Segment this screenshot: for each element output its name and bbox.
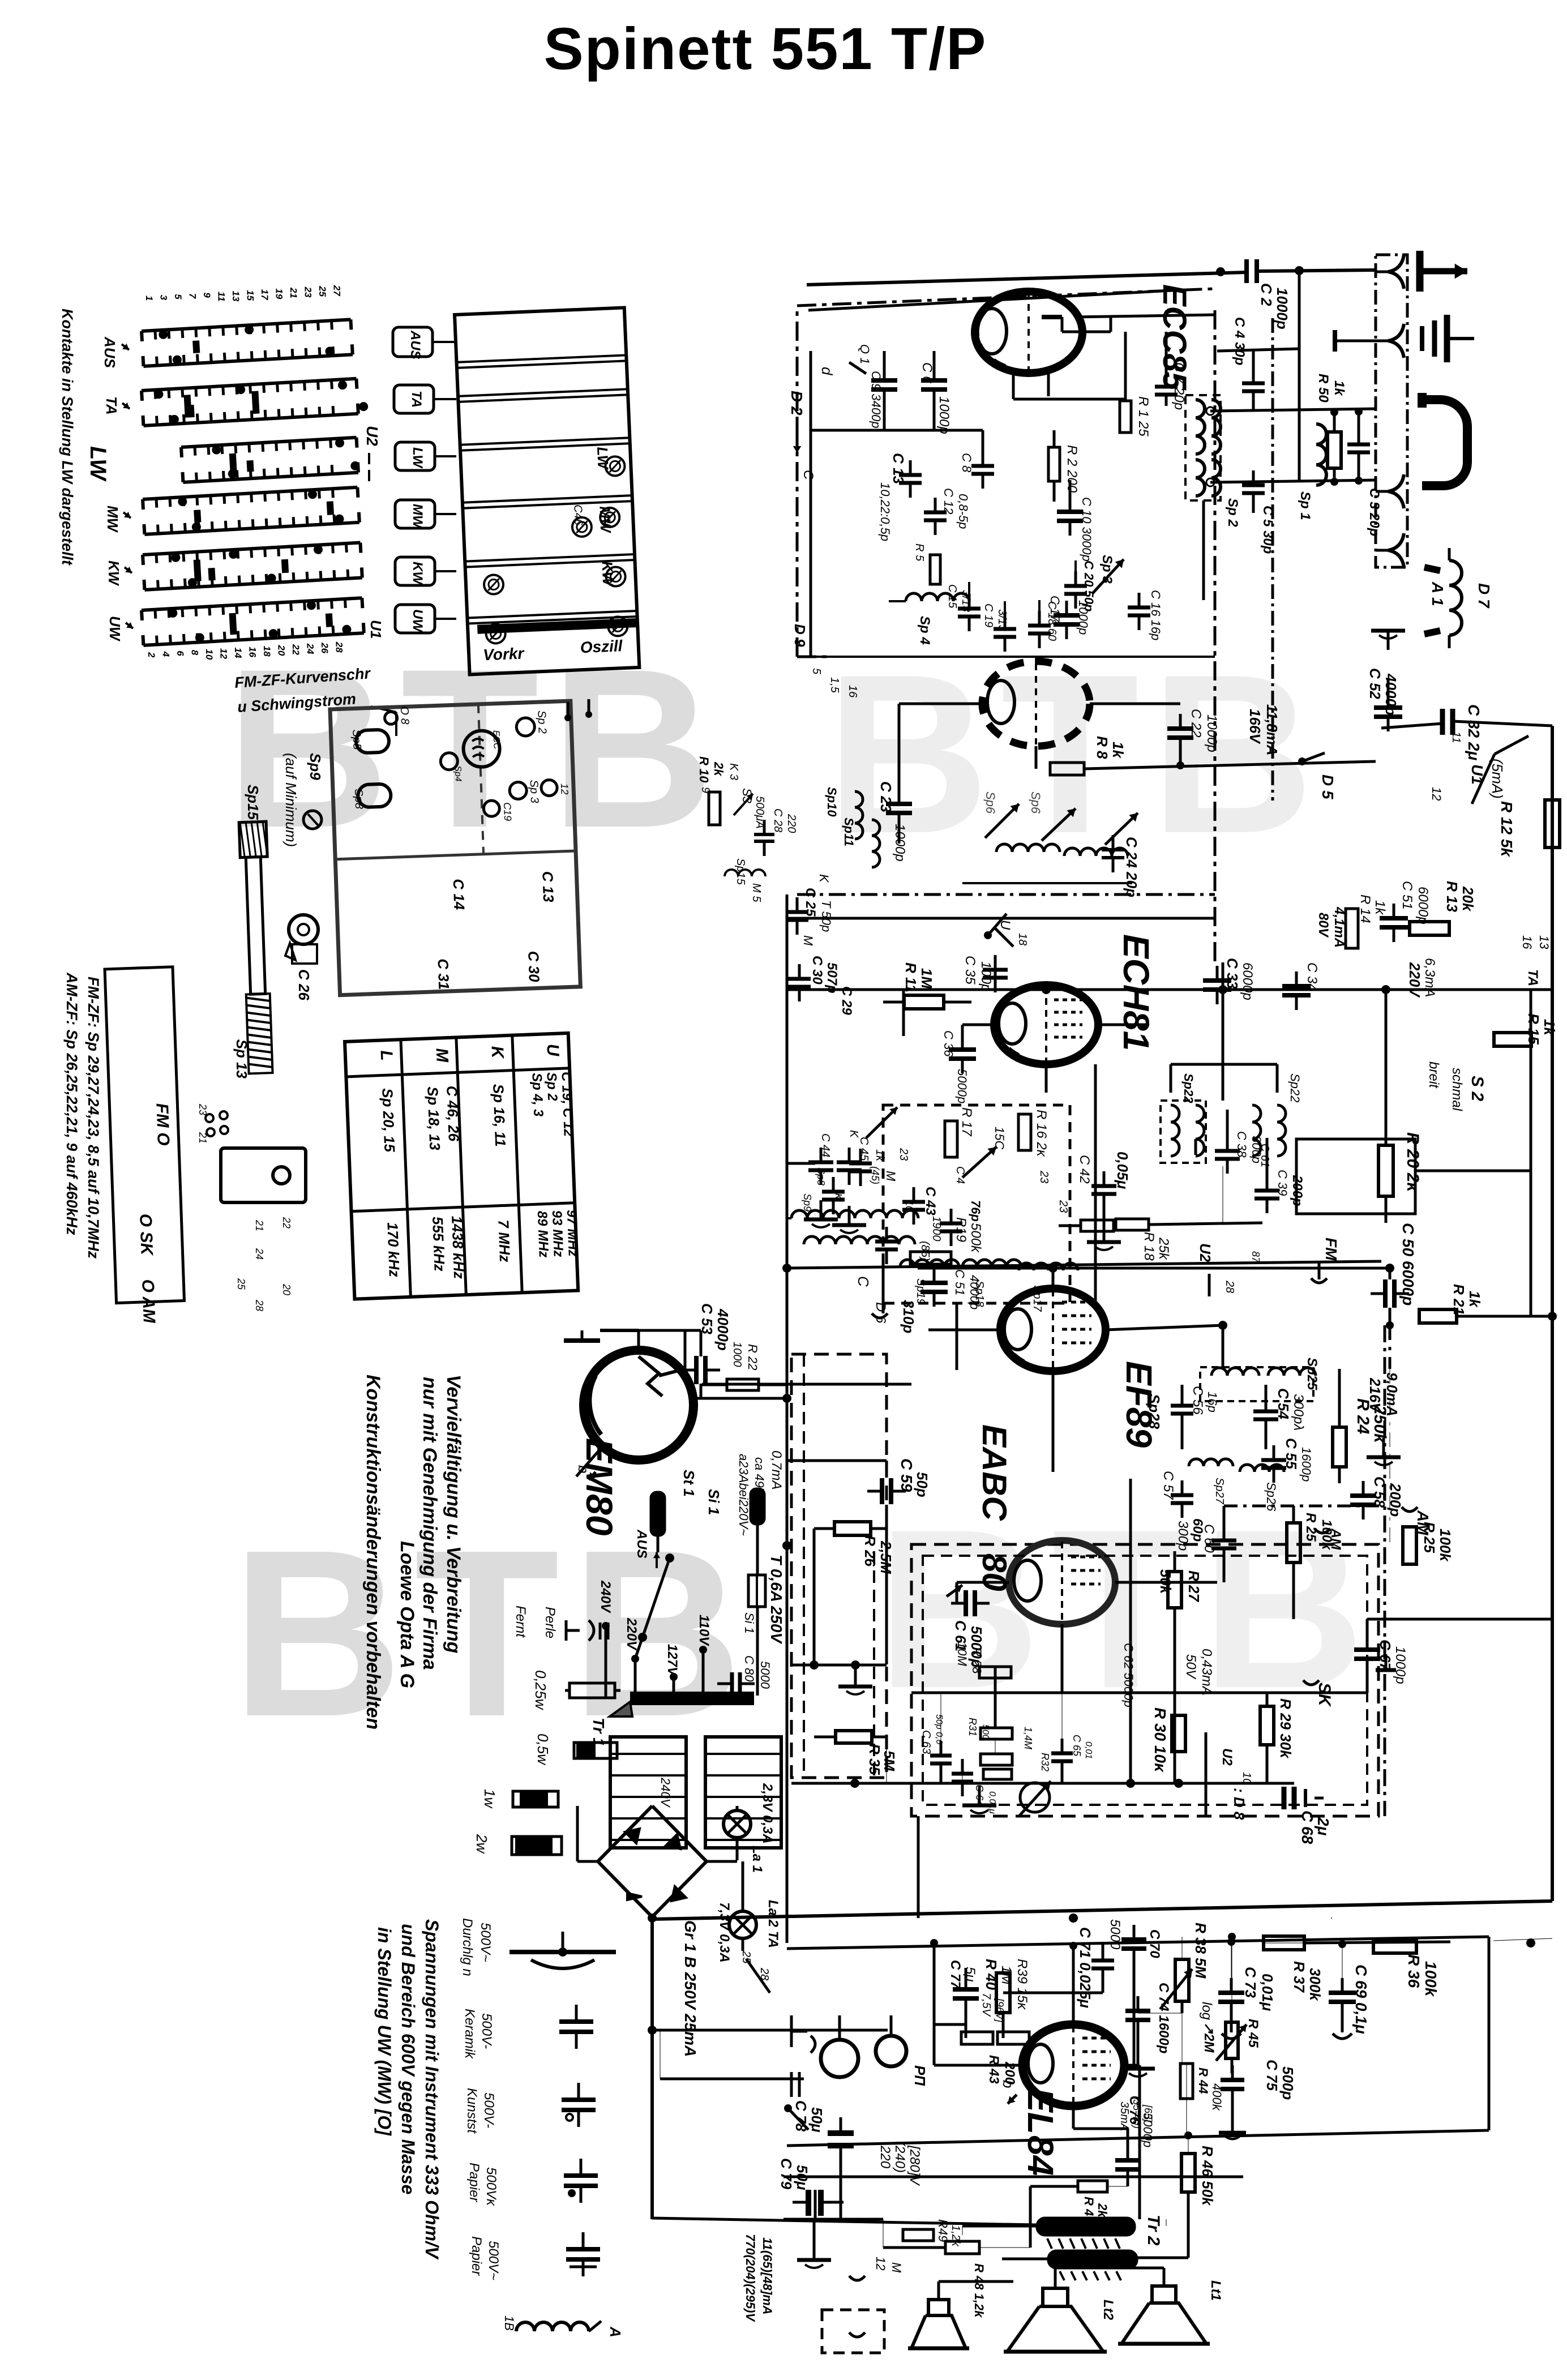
- svg-text:C 22: C 22: [1188, 709, 1204, 738]
- IF block rect: [1296, 1139, 1415, 1214]
- band connector tab MW: [395, 500, 435, 528]
- svg-text:FM O: FM O: [152, 1103, 173, 1146]
- capacitor C34: [1282, 984, 1311, 988]
- svg-text:300k: 300k: [1307, 1968, 1324, 2001]
- speaker wires: [1054, 2268, 1057, 2288]
- capacitor C6 1000p: [921, 378, 947, 383]
- svg-text:R 28: R 28: [970, 1647, 984, 1674]
- capacitor C58 200p: [1350, 1493, 1376, 1498]
- svg-text:2μ: 2μ: [1315, 1817, 1332, 1836]
- main bus top of output section: [652, 1901, 1552, 1919]
- svg-text:300pλ: 300pλ: [1291, 1394, 1306, 1431]
- dash-dot vertical right of EF89: [1384, 1325, 1386, 1816]
- svg-text:Sp 2: Sp 2: [1225, 498, 1240, 527]
- svg-text:5: 5: [810, 668, 823, 675]
- jack contacts left: [791, 2015, 807, 2047]
- svg-text:220V: 220V: [1406, 962, 1423, 998]
- svg-text:C 13: C 13: [890, 453, 907, 484]
- vertical bus x2160 IF: [1222, 962, 1225, 1101]
- svg-text:C 2: C 2: [1258, 283, 1275, 306]
- svg-text:1k: 1k: [1372, 900, 1388, 915]
- band connector tab TA: [394, 385, 434, 413]
- svg-text:Tr 2: Tr 2: [1144, 2215, 1163, 2246]
- svg-text:C 24 20p: C 24 20p: [1123, 837, 1140, 897]
- svg-text:U: U: [543, 1043, 562, 1057]
- svg-text:24: 24: [305, 643, 316, 654]
- svg-text:1,5: 1,5: [828, 677, 841, 694]
- svg-text:M: M: [889, 2262, 904, 2273]
- svg-text:R 5: R 5: [913, 543, 926, 562]
- detector shield dashed box right: [911, 1544, 1378, 1816]
- vertical thin bus from C50 down: [1389, 1369, 1390, 1546]
- switch lever to bus: [1495, 736, 1529, 754]
- svg-text:R 20 2κ: R 20 2κ: [1403, 1132, 1422, 1193]
- wire top bus to antenna: [807, 272, 1247, 285]
- capacitor C43: [902, 1200, 925, 1204]
- svg-text:4000p: 4000p: [1382, 673, 1399, 716]
- resistor R36 100k: [1373, 1940, 1416, 1953]
- svg-text:2k: 2k: [1095, 2203, 1110, 2218]
- svg-text:KW: KW: [410, 562, 425, 585]
- heater wires right: [652, 2029, 888, 2032]
- svg-text:C 50 6000p: C 50 6000p: [1399, 1223, 1417, 1305]
- svg-text:C 68: C 68: [1299, 1810, 1316, 1844]
- EL84 inner: [1028, 2044, 1053, 2083]
- svg-text:10M: 10M: [955, 1642, 969, 1666]
- svg-text:C 44: C 44: [819, 1133, 832, 1157]
- svg-text:127V: 127V: [665, 1644, 680, 1677]
- coil Sp27 Sp26: [1189, 1459, 1233, 1466]
- svg-text:12: 12: [874, 2257, 888, 2270]
- svg-text:Gr 1 B 250V 25mA: Gr 1 B 250V 25mA: [682, 1920, 699, 2057]
- svg-text:100p: 100p: [978, 961, 994, 991]
- svg-text:300p: 300p: [1175, 1521, 1191, 1551]
- svg-text:23: 23: [897, 1148, 910, 1161]
- resistor R5 2.2k: [930, 555, 940, 584]
- svg-text:Sp6: Sp6: [1029, 791, 1043, 814]
- resistor R27 50k: [1168, 1572, 1181, 1608]
- svg-text:Sp15: Sp15: [734, 858, 747, 885]
- svg-text:C 34: C 34: [1304, 962, 1320, 991]
- svg-text:Sp 20, 15: Sp 20, 15: [379, 1088, 398, 1153]
- ECH81 electrodes: [1045, 986, 1047, 1063]
- svg-text:Sp6: Sp6: [983, 791, 997, 814]
- svg-text:C 42: C 42: [1077, 1155, 1092, 1184]
- trimmer screws KW row: [483, 575, 503, 594]
- svg-text:C 35: C 35: [962, 956, 978, 984]
- svg-text:25: 25: [740, 1950, 752, 1964]
- grid bus EF89: [918, 1267, 1390, 1270]
- pins on box top: [564, 714, 571, 721]
- svg-text:C 18 60: C 18 60: [1046, 601, 1058, 641]
- svg-text:Sp15: Sp15: [245, 785, 262, 820]
- svg-text:0,7mA: 0,7mA: [769, 1450, 784, 1489]
- svg-text:EM80: EM80: [579, 1438, 620, 1536]
- svg-text:Sp10: Sp10: [825, 787, 839, 817]
- label b arrow EL84: [1008, 2095, 1017, 2104]
- svg-text:1000p: 1000p: [1204, 714, 1219, 752]
- svg-text:24: 24: [254, 1248, 265, 1260]
- svg-text:9: 9: [202, 292, 212, 298]
- tube ECC85: [975, 292, 1082, 373]
- svg-text:LW: LW: [410, 447, 425, 469]
- resistor R16 2k: [1018, 1114, 1031, 1150]
- capacitor C28 220: [754, 833, 774, 836]
- svg-text:1,2k: 1,2k: [949, 2225, 962, 2247]
- svg-text:220V: 220V: [624, 1617, 639, 1651]
- mixer inner electrode: [987, 680, 1014, 724]
- svg-text:K: K: [817, 874, 831, 883]
- svg-text:220: 220: [877, 2145, 893, 2169]
- svg-text:C 73: C 73: [1242, 1967, 1259, 1998]
- svg-text:50p: 50p: [914, 1472, 931, 1497]
- resistor R43 200 pair: [961, 2032, 993, 2044]
- tube EABC80: [1009, 1540, 1115, 1624]
- capacitor C22 1000p: [1167, 726, 1193, 731]
- svg-text:16: 16: [1520, 935, 1534, 949]
- svg-text:R 8: R 8: [1094, 736, 1111, 759]
- svg-text:5000p: 5000p: [955, 1069, 969, 1103]
- svg-text:AM: AM: [1328, 1528, 1343, 1550]
- svg-text:C 65: C 65: [1071, 1735, 1082, 1757]
- svg-text:(45): (45): [870, 1166, 881, 1184]
- resistor R2 200: [1048, 447, 1060, 481]
- svg-text:FM: FM: [1322, 1238, 1340, 1261]
- svg-text:R 50: R 50: [1316, 374, 1331, 403]
- svg-text:Sp5: Sp5: [350, 729, 363, 750]
- switch contact bank row MW: [143, 487, 359, 534]
- svg-text:1k: 1k: [1110, 742, 1127, 759]
- svg-text:D 2: D 2: [788, 391, 806, 416]
- adjust bolt Sp15: [239, 821, 275, 1073]
- svg-text:R19: R19: [953, 1217, 969, 1242]
- svg-text:10,22:0,5p: 10,22:0,5p: [878, 482, 892, 541]
- Tr2 wires: [962, 2225, 1037, 2228]
- svg-text:C 28: C 28: [772, 808, 784, 832]
- svg-text:R 38 5M: R 38 5M: [1192, 1923, 1209, 1979]
- lamp La1: [723, 1810, 751, 1838]
- svg-text:5: 5: [173, 294, 183, 299]
- svg-text:Lt1: Lt1: [1208, 2280, 1223, 2301]
- capacitor C70 5000p: [1121, 1937, 1146, 1942]
- coil Sp2 vertical: [1196, 400, 1205, 454]
- svg-text:8: 8: [190, 650, 200, 656]
- svg-text:Sp 13: Sp 13: [233, 1039, 250, 1079]
- svg-text:AUS: AUS: [408, 330, 423, 359]
- volume pot circle: [1020, 1783, 1050, 1812]
- svg-text:La 1: La 1: [750, 1846, 765, 1873]
- svg-text:R 40: R 40: [983, 1959, 1000, 1990]
- misc bottom-left wires: [783, 2176, 1243, 2178]
- EF89 wires: [1106, 1325, 1223, 1330]
- fork2 ground stub: [1333, 330, 1337, 352]
- svg-text:Fernt: Fernt: [513, 1606, 528, 1638]
- svg-text:M: M: [801, 935, 815, 946]
- svg-text:K 3: K 3: [727, 763, 740, 780]
- svg-text:500Vκ: 500Vκ: [483, 2167, 499, 2207]
- tube EM80: [584, 1350, 693, 1460]
- svg-text:Spinett 551 T/P: Spinett 551 T/P: [544, 16, 987, 82]
- svg-text:C 14: C 14: [450, 879, 468, 910]
- speaker middle Lt2: [1043, 2288, 1068, 2306]
- transformer Tr2 primary bar: [1037, 2218, 1134, 2235]
- switch contact bank row KW: [143, 543, 362, 590]
- svg-text:C 80: C 80: [742, 1655, 756, 1682]
- capacitor C20 50p: [1064, 584, 1087, 588]
- resistor R21 1k: [1419, 1309, 1457, 1323]
- hole C19: [483, 801, 500, 817]
- svg-text:80: 80: [975, 1553, 1013, 1591]
- svg-text:R32: R32: [1039, 1753, 1051, 1771]
- svg-text:Lt2: Lt2: [1101, 2300, 1116, 2321]
- svg-text:C 29: C 29: [839, 986, 854, 1015]
- capacitor C12 0.8-5p: [924, 511, 947, 515]
- resistor R13 20k: [1410, 922, 1449, 935]
- hole Sp2: [516, 717, 535, 736]
- svg-text:1k: 1k: [874, 1149, 886, 1162]
- capacitor C55 1600p: [1261, 1458, 1286, 1462]
- wires EF89 bandfilter: [1338, 1369, 1341, 1427]
- EF89 inner ellipse: [1004, 1309, 1031, 1350]
- capacitor C75 500p: [1221, 2078, 1244, 2082]
- svg-text:3: 3: [159, 295, 169, 301]
- bottom power bus link: [652, 2218, 1037, 2225]
- oscillator coil box dashed: [883, 1105, 1070, 1303]
- capacitor C61 5000p: [964, 1590, 968, 1616]
- resistor R26 2.5M: [834, 1522, 871, 1535]
- svg-text:in Stellung UW (MW) [O]: in Stellung UW (MW) [O]: [374, 1927, 395, 2136]
- svg-text:12: 12: [219, 648, 229, 659]
- svg-text:11,8mA: 11,8mA: [1264, 704, 1281, 756]
- switch U on bus: [988, 914, 1007, 935]
- capacitor C18 60: [1028, 624, 1051, 628]
- tuner box left lower edge: [797, 656, 832, 658]
- svg-text:4000p: 4000p: [967, 1275, 982, 1309]
- svg-text:1900: 1900: [930, 1216, 943, 1242]
- svg-text:und Bereich 600V gegen Masse: und Bereich 600V gegen Masse: [398, 1924, 418, 2194]
- svg-text:C 46, 26: C 46, 26: [443, 1085, 463, 1142]
- svg-text:R 25: R 25: [1421, 1522, 1438, 1553]
- resistor R48 1.2k: [945, 2241, 979, 2254]
- capacitor C13 tuner: [899, 473, 922, 477]
- svg-text:1B: 1B: [502, 2315, 516, 2331]
- svg-text:TA: TA: [103, 396, 120, 415]
- svg-text:28: 28: [254, 1299, 265, 1311]
- svg-text:500V-: 500V-: [481, 2092, 496, 2128]
- svg-text:Oszill: Oszill: [580, 637, 623, 656]
- svg-text:Sp8: Sp8: [815, 1167, 827, 1185]
- svg-text:D 5: D 5: [1319, 774, 1337, 799]
- svg-text:R 12 5k: R 12 5k: [1498, 801, 1515, 857]
- svg-text:breit: breit: [1426, 1061, 1441, 1089]
- svg-text:ECC: ECC: [491, 730, 501, 750]
- svg-text:1k: 1k: [1331, 380, 1347, 396]
- EL84 grid wire: [934, 2064, 1022, 2067]
- trimmer screws UW row: [486, 624, 506, 644]
- bandfilter Sp25: [1211, 1368, 1259, 1376]
- svg-text:4000p: 4000p: [714, 1308, 731, 1351]
- resistor R20 2k: [1378, 1145, 1393, 1196]
- Tr2 hatch: [1047, 2238, 1052, 2249]
- ferrite antenna coil D7 A1: [1449, 560, 1462, 635]
- osc cluster cap a: [849, 1162, 872, 1166]
- trimmer Sp3 arrow: [1093, 559, 1124, 593]
- resistor R46 50k: [1181, 2154, 1195, 2192]
- svg-text:7: 7: [187, 293, 198, 299]
- svg-text:5M: 5M: [881, 1750, 898, 1771]
- svg-text:C 52: C 52: [1367, 668, 1384, 699]
- svg-text:C 79: C 79: [778, 2158, 795, 2189]
- svg-text:ECH81: ECH81: [1116, 934, 1157, 1051]
- svg-text:C 13: C 13: [539, 871, 557, 902]
- dash-dot vertical antenna enclosure: [1271, 318, 1274, 801]
- dipole hook symbol: [1422, 400, 1467, 486]
- svg-text:(240): (240): [892, 2141, 907, 2173]
- svg-text:M: M: [433, 1048, 452, 1063]
- svg-text:R 13: R 13: [1444, 881, 1461, 912]
- resistor R22 1M: [727, 1379, 759, 1390]
- svg-text:Konstruktionsänderungen vorbeh: Konstruktionsänderungen vorbehalten: [362, 1375, 384, 1730]
- power wires: [657, 1535, 660, 1552]
- screen grid wire: [1188, 2134, 1189, 2154]
- ECC85 inner cathode ellipse: [977, 309, 1007, 354]
- svg-text:C 6: C 6: [919, 362, 935, 384]
- coil Sp1: [1316, 424, 1326, 485]
- capacitor C57 60p: [1171, 1493, 1193, 1497]
- ECH81 stage wires: [902, 990, 905, 1036]
- svg-text:16p: 16p: [1205, 1392, 1219, 1412]
- dipole fork 4: [1376, 549, 1388, 552]
- resistor R50 1k: [1328, 432, 1341, 468]
- switch contact bottom left: [788, 2108, 808, 2130]
- svg-text:C 7 20p: C 7 20p: [1171, 362, 1187, 410]
- svg-text:C 5 30p: C 5 30p: [1260, 506, 1275, 554]
- svg-text:500p: 500p: [1279, 2066, 1296, 2100]
- svg-text:76p: 76p: [969, 1200, 983, 1222]
- svg-text:Kontakte in Stellung LW darges: Kontakte in Stellung LW dargestellt: [59, 309, 76, 566]
- svg-text:15C: 15C: [992, 1127, 1007, 1149]
- svg-text:C 54: C 54: [1275, 1388, 1292, 1419]
- transformer Tr1 primary bar: [630, 1692, 754, 1705]
- capacitor C2 1000p: [1244, 259, 1249, 283]
- svg-text:FM-ZF: Sp 29,27,24,23, 8,5 auf: FM-ZF: Sp 29,27,24,23, 8,5 auf 10,7MHz: [85, 977, 102, 1259]
- resistor R40 1M: [996, 1973, 1010, 2013]
- resistor R18 25k double: [1081, 1220, 1114, 1231]
- svg-text:AUS: AUS: [634, 1529, 649, 1559]
- plate to transformer wire: [1124, 2064, 1140, 2067]
- resistor R11 1M: [904, 995, 944, 1009]
- trimmer C26: [289, 915, 318, 944]
- svg-text:22: 22: [281, 1217, 292, 1228]
- svg-text:6000p: 6000p: [1415, 887, 1431, 924]
- svg-text:BTB: BTB: [231, 1501, 753, 1766]
- svg-text:1438 kHz: 1438 kHz: [448, 1215, 468, 1279]
- svg-text:Sp28: Sp28: [1146, 1394, 1163, 1429]
- svg-text:d: d: [819, 367, 836, 376]
- svg-text:12: 12: [1429, 787, 1444, 801]
- svg-text:R 36: R 36: [1405, 1954, 1423, 1988]
- capacitor C60 300p: [1211, 1539, 1236, 1543]
- svg-text:C 15: C 15: [946, 584, 958, 609]
- svg-text:6: 6: [175, 650, 186, 656]
- svg-text:UW: UW: [106, 616, 123, 642]
- capacitor C35 100p: [983, 968, 1008, 972]
- svg-text:2,3V 0,3A: 2,3V 0,3A: [760, 1783, 775, 1844]
- wire EABC80 plate right: [1223, 1558, 1226, 1582]
- svg-text:C 56: C 56: [1190, 1386, 1205, 1415]
- svg-text:Sp4: Sp4: [453, 765, 463, 782]
- lamp La2: [729, 1911, 756, 1938]
- trimmer screw Sp18 LW row: [605, 456, 625, 476]
- svg-text:100k: 100k: [1437, 1529, 1454, 1562]
- second vertical ECH81 bottom: [1094, 1064, 1097, 1302]
- svg-text:C 30: C 30: [810, 956, 825, 984]
- svg-text:C 61: C 61: [1258, 1144, 1271, 1167]
- svg-text:C 69 0,1μ: C 69 0,1μ: [1352, 1964, 1370, 2034]
- resistor network R31 R32 R33: [981, 1728, 1012, 1739]
- svg-text:R 17: R 17: [959, 1107, 974, 1137]
- svg-text:C 4: C 4: [954, 1166, 966, 1184]
- capacitor C25: [786, 910, 808, 914]
- svg-text:555 kHz: 555 kHz: [429, 1216, 448, 1272]
- oscillator coil long row 2: [804, 1236, 915, 1244]
- EM80 grid lead b: [576, 1449, 600, 1476]
- tube ECH81: [994, 985, 1098, 1064]
- coil Sp10: [855, 791, 863, 839]
- socket hole Sp8: [358, 784, 391, 807]
- svg-text:25k: 25k: [1156, 1237, 1171, 1261]
- IF bandfilter coils Sp21 Sp22: [1171, 1105, 1179, 1156]
- svg-text:26: 26: [319, 642, 330, 653]
- FM tuner enclosure dash-dot box: [797, 289, 1215, 657]
- svg-text:12: 12: [559, 783, 571, 795]
- alignment frequency table: [345, 1033, 582, 1299]
- svg-text:R 22: R 22: [746, 1344, 760, 1370]
- svg-text:R 30 10κ: R 30 10κ: [1151, 1707, 1169, 1773]
- capacitor C8: [971, 464, 994, 468]
- svg-text:↗2M: ↗2M: [1201, 2022, 1217, 2053]
- test point box FMO OSK OAM: [105, 967, 185, 1325]
- second top line: [808, 290, 1183, 310]
- svg-text:TA: TA: [1525, 969, 1540, 986]
- capacitor C17 1000p: [1054, 613, 1080, 618]
- svg-text:R 21: R 21: [1450, 1284, 1467, 1315]
- svg-text:6000p: 6000p: [1240, 962, 1255, 1000]
- band switch unit box: [455, 307, 639, 674]
- capacitor C54 300p: [1253, 1410, 1278, 1414]
- antenna coupling coil A: [516, 2322, 589, 2331]
- coil Sp4 tuner: [906, 593, 969, 601]
- svg-text:R 1 25: R 1 25: [1136, 396, 1151, 436]
- svg-text:Loewe Opta A G: Loewe Opta A G: [396, 1541, 418, 1688]
- resistor R14 1k: [1346, 909, 1358, 948]
- resistor R8 1k: [1050, 763, 1084, 775]
- capacitor C38 300p: [1215, 1149, 1240, 1153]
- svg-text:Sp22: Sp22: [1288, 1073, 1302, 1102]
- resistor R24 250k: [1333, 1427, 1346, 1467]
- capacitor C76 5000p: [1115, 2158, 1140, 2163]
- speaker left small: [928, 2300, 949, 2315]
- wire EF89 grid entry: [1052, 1268, 1055, 1289]
- speaker right Lt1: [1152, 2286, 1176, 2303]
- capacitor C53 4000p: [694, 1356, 699, 1384]
- tube EF89: [1000, 1289, 1106, 1371]
- rectifier Gr1 bridge: [598, 1806, 707, 1917]
- TA ground cluster: [813, 2241, 816, 2260]
- svg-text:240V: 240V: [598, 1580, 613, 1613]
- svg-text:C 70: C 70: [1147, 1929, 1162, 1958]
- capacitor C77 5u: [953, 1987, 979, 1992]
